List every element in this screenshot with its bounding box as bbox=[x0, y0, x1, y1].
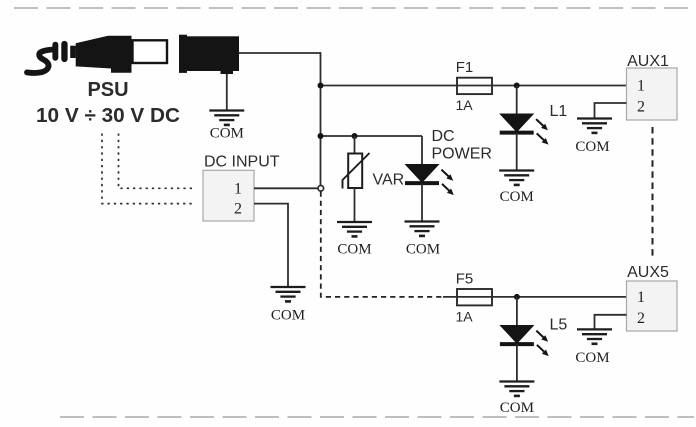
PSU plug bbox=[27, 36, 167, 73]
svg-text:L5: L5 bbox=[550, 317, 568, 334]
dashed continuation AUX1 to AUX5 bbox=[652, 127, 654, 256]
svg-text:DC INPUT: DC INPUT bbox=[204, 154, 280, 171]
wire into fuse F5 bbox=[443, 296, 492, 298]
svg-text:1A: 1A bbox=[455, 309, 473, 325]
svg-text:F1: F1 bbox=[456, 59, 474, 76]
ground DC POWER bbox=[405, 222, 440, 236]
varistor VAR bbox=[348, 154, 362, 189]
DC power jack bbox=[179, 35, 239, 74]
wire junction to LED L1 anode bbox=[516, 86, 518, 115]
fuse F1 bbox=[457, 78, 492, 94]
LED L5 bbox=[500, 326, 549, 357]
wire F1 to AUX1 pin 1 bbox=[492, 85, 627, 87]
LED L1 bbox=[500, 114, 549, 145]
svg-text:COM: COM bbox=[406, 242, 440, 258]
junction bus / VAR row bbox=[318, 133, 324, 139]
ground jack bbox=[209, 111, 244, 125]
wire to varistor bbox=[354, 136, 356, 154]
ground AUX1 bbox=[577, 119, 612, 133]
connector AUX1 bbox=[627, 68, 678, 120]
ground VAR bbox=[337, 222, 372, 236]
svg-text:COM: COM bbox=[210, 126, 244, 142]
wire VAR to ground bbox=[354, 188, 356, 222]
svg-text:AUX1: AUX1 bbox=[627, 53, 669, 70]
svg-text:1: 1 bbox=[637, 77, 645, 94]
wire LED DC POWER cathode to ground bbox=[421, 184, 423, 222]
junction L5 tap bbox=[514, 294, 520, 300]
wire bus to fuse F1 bbox=[321, 85, 493, 87]
svg-text:F5: F5 bbox=[456, 270, 474, 287]
svg-text:COM: COM bbox=[337, 242, 371, 258]
svg-text:2: 2 bbox=[234, 201, 242, 218]
svg-text:10 V ÷ 30 V DC: 10 V ÷ 30 V DC bbox=[36, 105, 180, 127]
svg-text:L1: L1 bbox=[550, 103, 568, 120]
wire DC INPUT pin 1 to bus bbox=[254, 187, 321, 189]
wire jack to supply bus bbox=[239, 53, 321, 189]
wire L1 cathode to ground bbox=[516, 133, 518, 171]
svg-text:2: 2 bbox=[637, 310, 645, 327]
ground DC INPUT bbox=[271, 287, 306, 301]
node open junction pin 1 / bus bbox=[318, 186, 324, 192]
dashed link PSU to DC INPUT pin 2 bbox=[102, 134, 194, 204]
wire junction to LED L5 anode bbox=[516, 297, 518, 326]
dashed link PSU to DC INPUT pin 1 bbox=[119, 134, 195, 189]
junction L1 tap bbox=[514, 83, 520, 89]
svg-text:1A: 1A bbox=[455, 97, 473, 113]
dashed bus to F5 row bbox=[321, 192, 445, 297]
LED DC POWER bbox=[405, 165, 454, 196]
ground L1 bbox=[499, 171, 534, 185]
svg-text:DC: DC bbox=[432, 128, 455, 145]
wire L5 cathode to ground bbox=[516, 345, 518, 382]
svg-text:2: 2 bbox=[637, 99, 645, 116]
svg-text:COM: COM bbox=[271, 308, 305, 324]
svg-text:1: 1 bbox=[234, 180, 242, 197]
svg-text:VAR: VAR bbox=[373, 172, 405, 189]
wire to LED DC POWER anode bbox=[421, 136, 423, 165]
connector AUX5 bbox=[627, 281, 678, 331]
ground L5 bbox=[499, 382, 534, 396]
ground AUX5 bbox=[577, 329, 612, 343]
svg-text:1: 1 bbox=[637, 289, 645, 306]
wire AUX1 pin 2 to ground bbox=[595, 103, 627, 119]
wire DC INPUT pin 2 to ground bbox=[254, 204, 288, 287]
wire AUX5 pin 2 to ground bbox=[595, 315, 627, 330]
svg-text:POWER: POWER bbox=[432, 145, 492, 162]
fuse F5 bbox=[457, 289, 492, 305]
wire jack sleeve to ground bbox=[226, 74, 228, 111]
wire bus to VAR and DC POWER row bbox=[321, 135, 423, 137]
svg-text:AUX5: AUX5 bbox=[627, 264, 669, 281]
svg-text:COM: COM bbox=[575, 350, 609, 366]
junction bus / F1 row bbox=[318, 83, 324, 89]
svg-text:PSU: PSU bbox=[87, 79, 128, 101]
svg-text:COM: COM bbox=[500, 400, 534, 416]
wire F5 to AUX5 pin 1 bbox=[492, 296, 627, 298]
svg-text:COM: COM bbox=[575, 139, 609, 155]
label DC POWER bbox=[432, 128, 492, 162]
connector DC INPUT bbox=[203, 170, 254, 221]
junction VAR tap bbox=[352, 133, 358, 139]
svg-text:COM: COM bbox=[500, 189, 534, 205]
